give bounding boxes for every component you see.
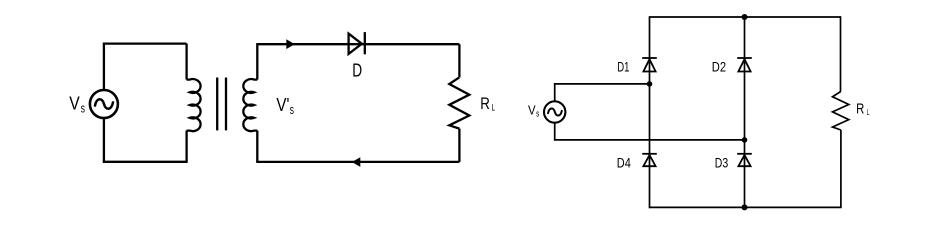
source VS wire top bbox=[555, 84, 650, 101]
svg-text:V: V bbox=[69, 94, 80, 114]
diode D4 bbox=[642, 154, 657, 166]
junction dot bottom (bridge) bbox=[742, 204, 748, 210]
junction dot middle branch / source - bbox=[742, 137, 748, 143]
svg-text:D3: D3 bbox=[715, 155, 729, 170]
sine wave inside right VS bbox=[548, 108, 562, 115]
wire bridge bottom bbox=[650, 206, 841, 208]
wire primary right upper bbox=[185, 44, 187, 80]
svg-text:s: s bbox=[290, 103, 294, 117]
svg-text:L: L bbox=[867, 108, 870, 117]
wire bridge top bbox=[650, 16, 841, 18]
wire left branch bbox=[649, 16, 651, 208]
svg-text:s: s bbox=[81, 101, 85, 115]
transformer core line 2 bbox=[225, 78, 227, 131]
source VS AC circle bbox=[90, 90, 118, 118]
svg-text:R: R bbox=[856, 102, 864, 118]
svg-text:s: s bbox=[536, 108, 540, 118]
wire secondary left upper bbox=[256, 43, 258, 80]
diode D triangle bbox=[349, 34, 362, 54]
wire secondary right lower bbox=[458, 129, 460, 162]
wire secondary top bbox=[257, 43, 459, 45]
wire right side lower bbox=[840, 130, 842, 208]
current arrow left (bottom wire) bbox=[352, 157, 360, 167]
svg-text:L: L bbox=[492, 103, 496, 113]
wire middle branch bbox=[744, 16, 746, 208]
transformer core line 1 bbox=[216, 78, 218, 131]
diode D cathode bar bbox=[364, 32, 366, 54]
junction dot top (bridge) bbox=[742, 14, 748, 20]
wire right side upper bbox=[840, 16, 842, 91]
sine wave inside VS bbox=[95, 99, 113, 109]
source VS AC circle (right) bbox=[544, 101, 565, 122]
transformer secondary coil bbox=[243, 79, 257, 131]
resistor RL (left circuit) zigzag bbox=[449, 77, 469, 128]
svg-text:V': V' bbox=[276, 95, 289, 115]
svg-text:D1: D1 bbox=[617, 59, 629, 74]
wire primary left lower bbox=[103, 118, 105, 162]
transformer primary coil bbox=[187, 79, 201, 131]
diode D1 bbox=[642, 58, 657, 72]
wire secondary left lower bbox=[256, 131, 258, 162]
junction dot left branch / source + bbox=[647, 81, 653, 87]
svg-text:R: R bbox=[480, 94, 490, 113]
svg-text:D: D bbox=[352, 59, 362, 80]
source VS wire bottom bbox=[555, 123, 745, 140]
wire primary top bbox=[104, 42, 187, 44]
wire secondary right upper bbox=[458, 44, 460, 77]
wire secondary bottom bbox=[256, 161, 459, 163]
wire primary bottom bbox=[103, 161, 187, 163]
svg-text:V: V bbox=[528, 103, 536, 117]
wire primary left upper bbox=[103, 43, 105, 90]
svg-text:D4: D4 bbox=[617, 155, 631, 170]
current arrow right (top wire) bbox=[286, 39, 295, 49]
svg-text:D2: D2 bbox=[712, 59, 726, 74]
diode D2 bbox=[737, 58, 752, 72]
diode D3 bbox=[737, 154, 752, 166]
resistor RL (right circuit) zigzag bbox=[833, 91, 849, 130]
wire primary right lower bbox=[185, 131, 187, 163]
